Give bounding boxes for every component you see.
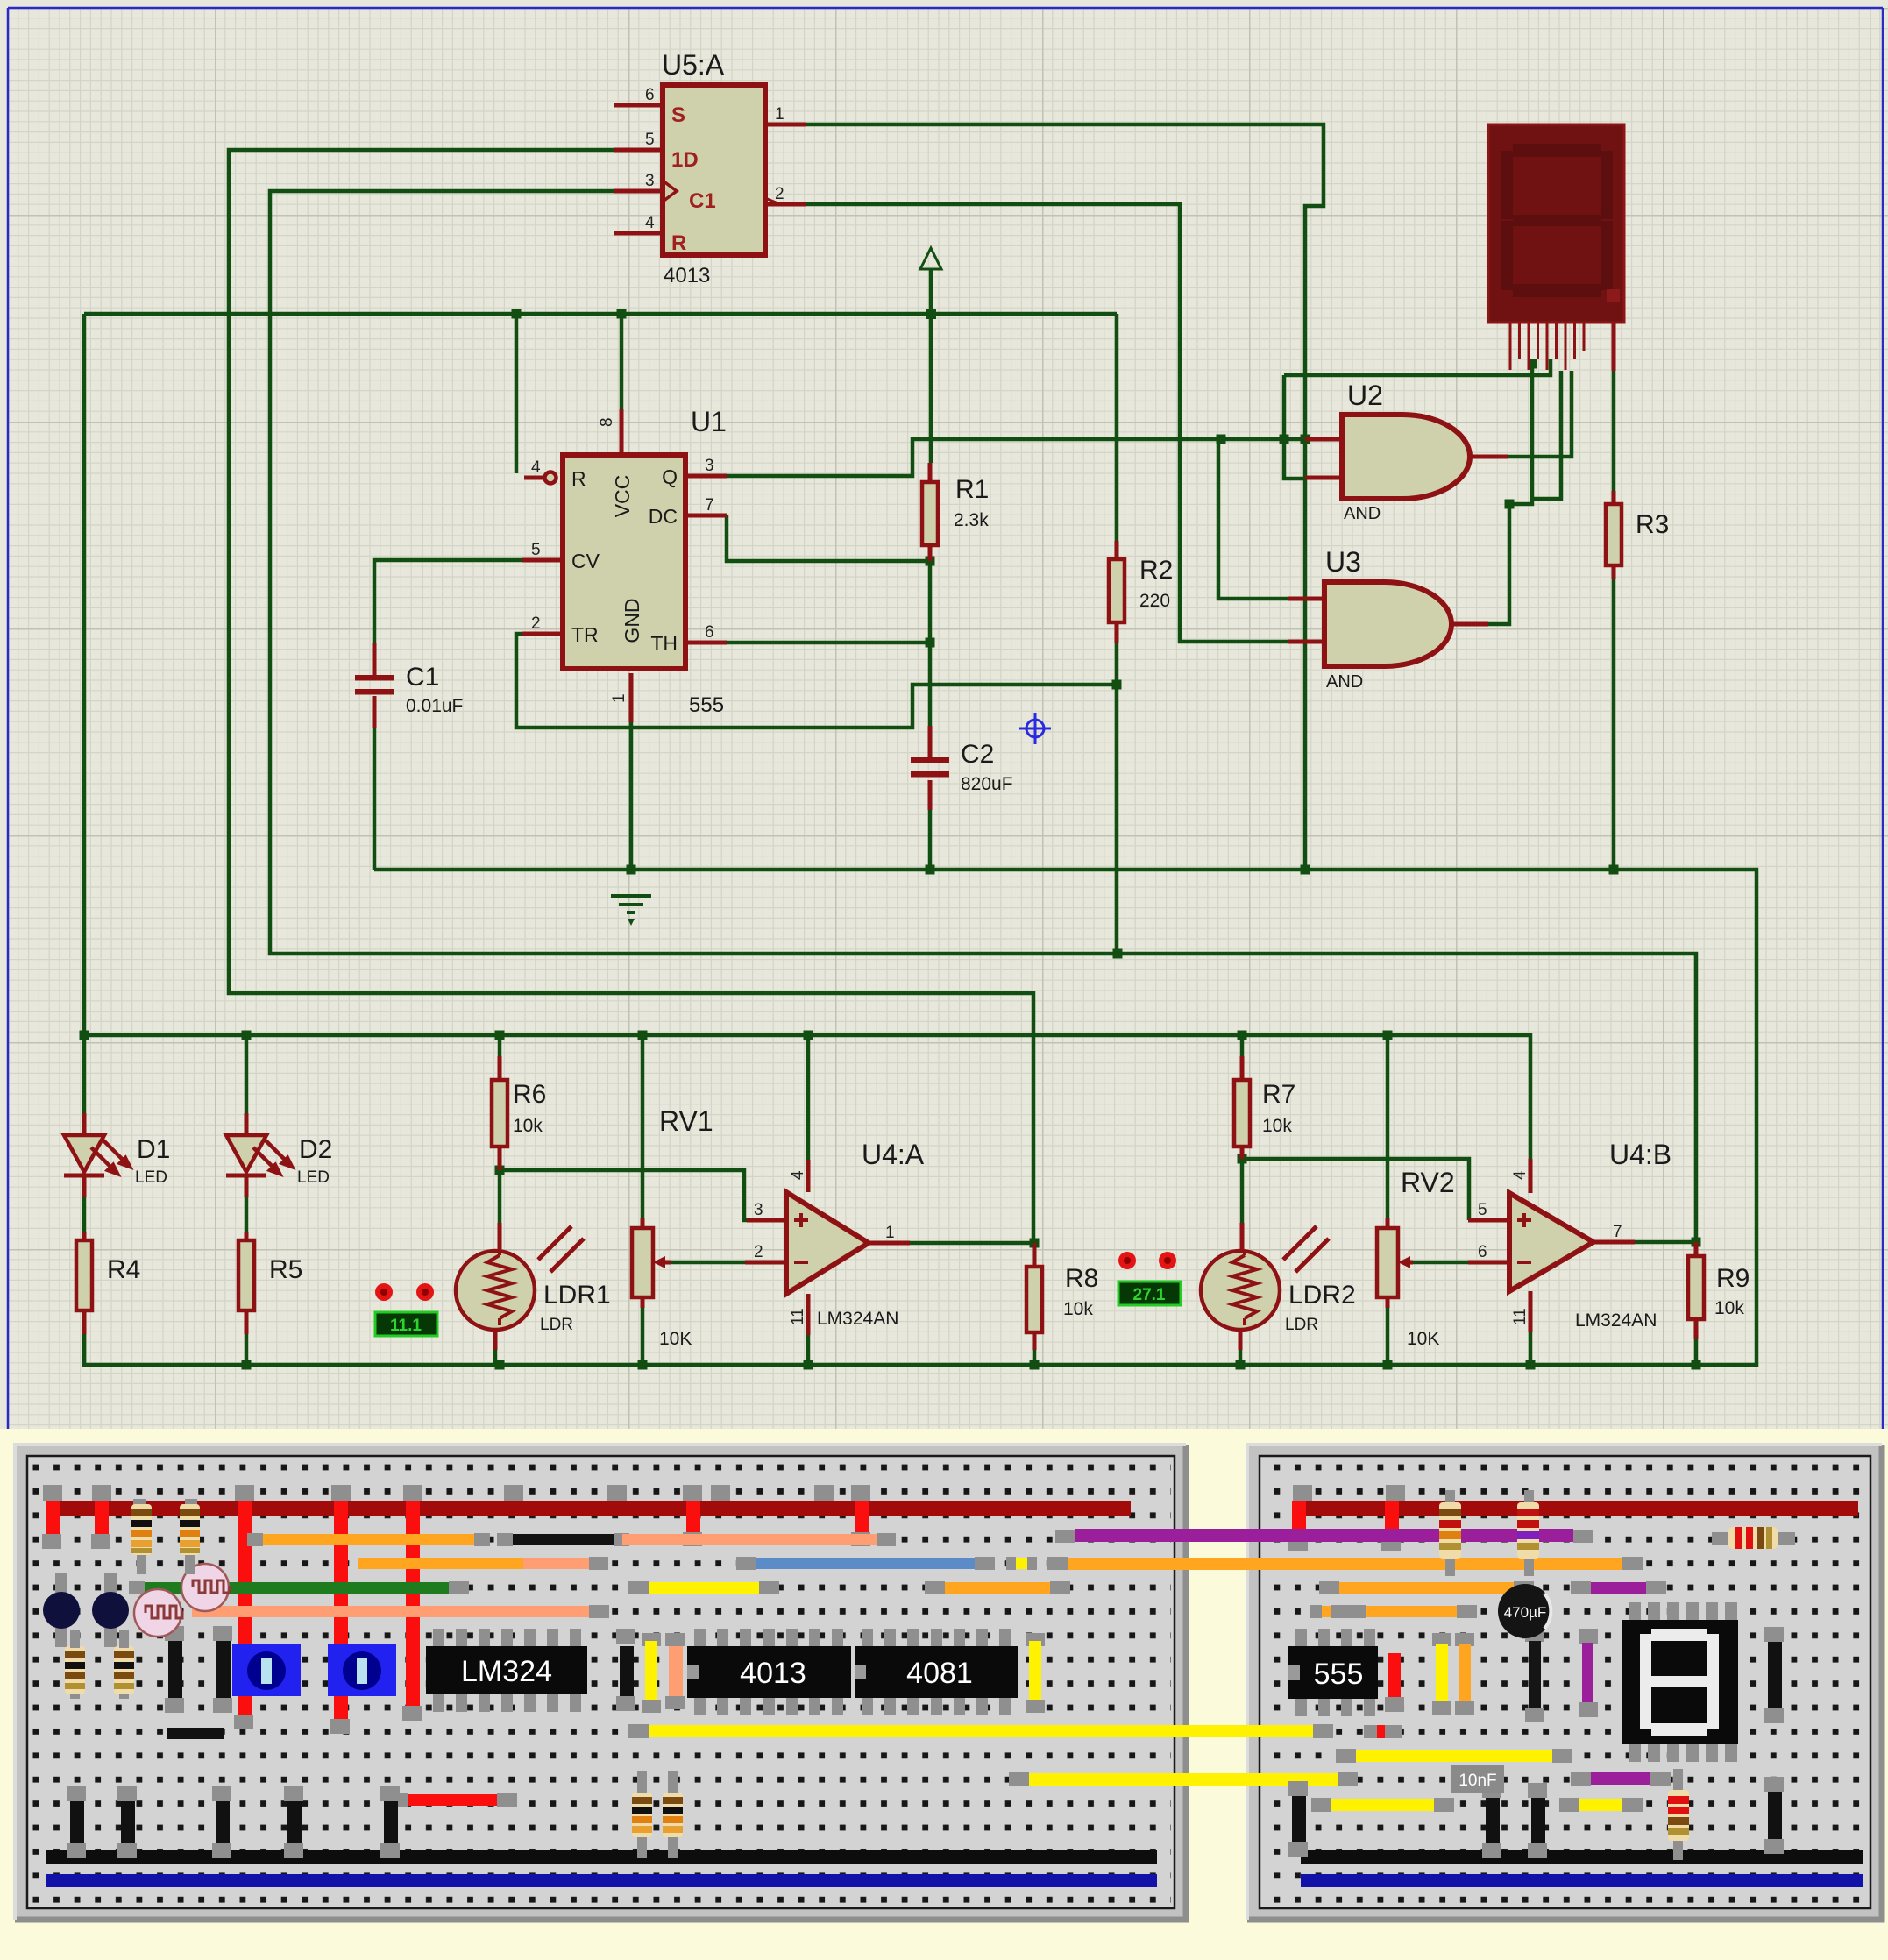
svg-text:2.3k: 2.3k: [954, 510, 989, 530]
svg-text:D2: D2: [299, 1135, 332, 1164]
svg-text:11: 11: [1511, 1308, 1530, 1325]
svg-text:6: 6: [705, 623, 714, 642]
svg-text:2: 2: [754, 1243, 763, 1261]
svg-text:6: 6: [645, 86, 655, 104]
svg-text:R7: R7: [1262, 1080, 1295, 1109]
svg-text:LDR: LDR: [1285, 1316, 1318, 1334]
svg-text:R: R: [571, 467, 586, 490]
svg-text:LM324AN: LM324AN: [1575, 1310, 1657, 1331]
svg-text:4: 4: [645, 214, 655, 232]
svg-text:4013: 4013: [740, 1657, 806, 1690]
svg-text:3: 3: [705, 457, 714, 475]
svg-text:DC: DC: [649, 505, 678, 528]
svg-text:27.1: 27.1: [1133, 1286, 1166, 1304]
svg-text:8: 8: [598, 417, 616, 427]
svg-text:820uF: 820uF: [961, 774, 1013, 794]
svg-text:2: 2: [775, 185, 784, 203]
svg-text:4: 4: [531, 458, 541, 477]
svg-text:TR: TR: [571, 623, 599, 646]
svg-text:6: 6: [1478, 1243, 1487, 1261]
svg-text:R9: R9: [1716, 1264, 1750, 1293]
svg-text:11: 11: [789, 1308, 807, 1325]
svg-text:GND: GND: [621, 598, 643, 643]
svg-text:RV1: RV1: [659, 1105, 713, 1137]
svg-text:U3: U3: [1325, 546, 1361, 578]
svg-text:4013: 4013: [664, 264, 710, 288]
svg-text:LDR1: LDR1: [543, 1281, 611, 1310]
svg-text:R5: R5: [269, 1255, 302, 1284]
svg-text:C1: C1: [689, 189, 716, 213]
svg-text:5: 5: [1478, 1201, 1487, 1219]
svg-text:1: 1: [610, 693, 628, 703]
svg-text:C2: C2: [961, 740, 994, 769]
svg-text:AND: AND: [1344, 504, 1381, 523]
svg-text:10nF: 10nF: [1459, 1772, 1496, 1790]
svg-text:3: 3: [645, 172, 655, 190]
svg-text:TH: TH: [650, 632, 678, 655]
svg-text:LDR2: LDR2: [1288, 1281, 1356, 1310]
svg-text:LED: LED: [297, 1168, 330, 1187]
svg-text:470µF: 470µF: [1504, 1604, 1547, 1621]
svg-text:LDR: LDR: [540, 1316, 573, 1334]
svg-text:7: 7: [705, 496, 714, 515]
svg-text:1: 1: [885, 1224, 895, 1242]
svg-text:1: 1: [775, 105, 784, 124]
svg-text:555: 555: [1314, 1658, 1364, 1691]
svg-text:U4:A: U4:A: [862, 1139, 925, 1170]
svg-text:220: 220: [1139, 591, 1170, 611]
svg-text:10K: 10K: [659, 1329, 692, 1349]
svg-text:LED: LED: [135, 1168, 167, 1187]
svg-text:10k: 10k: [513, 1116, 543, 1136]
svg-text:U1: U1: [691, 406, 727, 437]
svg-text:R2: R2: [1139, 556, 1173, 585]
svg-text:U5:A: U5:A: [662, 49, 725, 81]
svg-text:10k: 10k: [1262, 1116, 1292, 1136]
svg-text:D1: D1: [137, 1135, 170, 1164]
svg-text:U2: U2: [1347, 380, 1383, 411]
svg-text:R: R: [671, 231, 686, 255]
svg-text:11.1: 11.1: [390, 1317, 422, 1335]
svg-text:U4:B: U4:B: [1609, 1139, 1672, 1170]
svg-text:R6: R6: [513, 1080, 546, 1109]
svg-text:LM324AN: LM324AN: [817, 1309, 898, 1329]
svg-text:4: 4: [789, 1170, 807, 1180]
svg-text:555: 555: [689, 693, 724, 717]
svg-text:4081: 4081: [906, 1657, 973, 1690]
svg-text:0.01uF: 0.01uF: [406, 696, 463, 716]
svg-text:10K: 10K: [1407, 1329, 1439, 1349]
svg-text:1D: 1D: [671, 148, 699, 172]
svg-text:R3: R3: [1636, 510, 1669, 539]
svg-text:LM324: LM324: [461, 1655, 552, 1688]
svg-text:R4: R4: [107, 1255, 140, 1284]
svg-text:5: 5: [531, 541, 541, 559]
svg-text:7: 7: [1613, 1223, 1622, 1241]
svg-text:10k: 10k: [1063, 1299, 1093, 1319]
svg-text:RV2: RV2: [1401, 1167, 1455, 1198]
svg-text:AND: AND: [1326, 672, 1363, 692]
svg-text:5: 5: [645, 131, 655, 149]
svg-text:VCC: VCC: [611, 475, 634, 518]
svg-text:Q: Q: [662, 465, 678, 488]
svg-text:CV: CV: [571, 550, 600, 572]
svg-text:C1: C1: [406, 663, 439, 692]
svg-text:10k: 10k: [1714, 1298, 1744, 1318]
svg-text:2: 2: [531, 614, 541, 633]
svg-text:4: 4: [1511, 1170, 1530, 1180]
svg-text:R8: R8: [1065, 1264, 1098, 1293]
svg-text:S: S: [671, 103, 685, 127]
svg-text:R1: R1: [955, 475, 989, 504]
svg-text:3: 3: [754, 1201, 763, 1219]
